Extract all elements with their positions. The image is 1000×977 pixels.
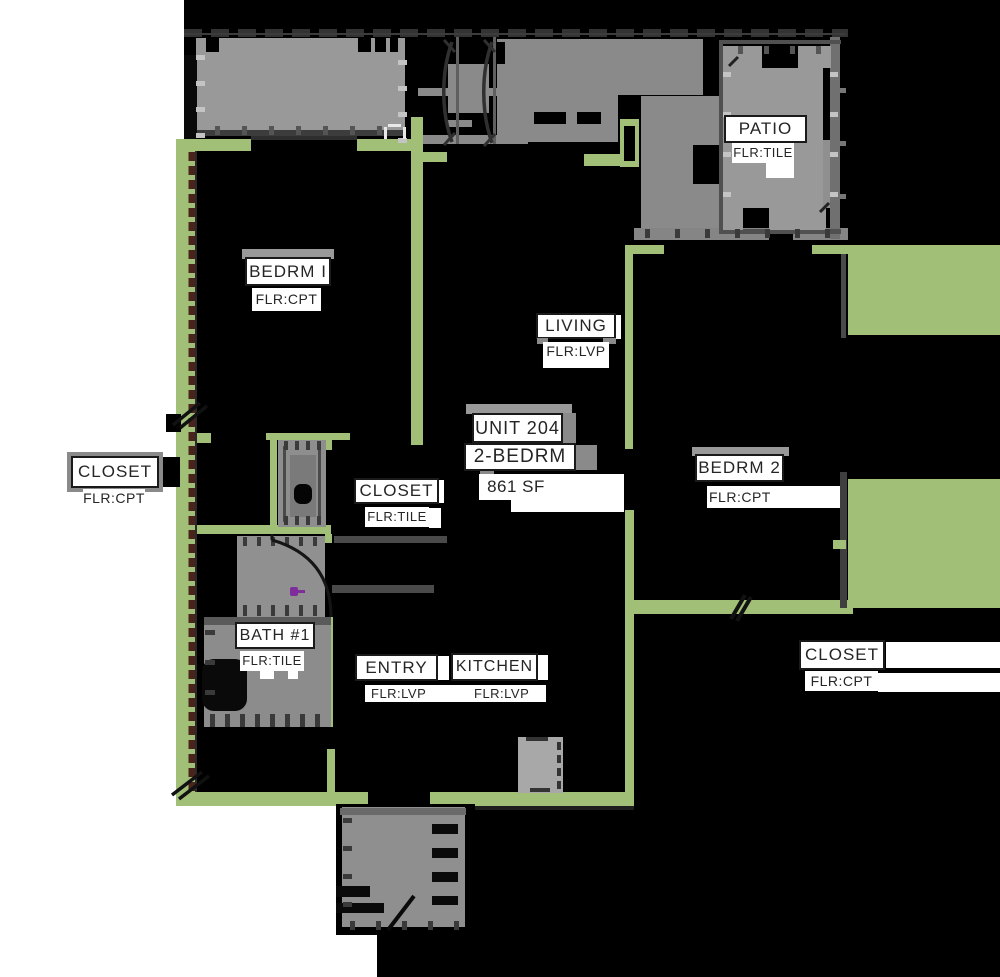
gray stubs right of patio edge	[840, 88, 846, 93]
patio right inner column black upper	[823, 68, 830, 140]
wall: laundry closet top (green)	[266, 433, 350, 440]
wall: unit right / corridor wall upper (green)	[625, 245, 633, 449]
half wall / counter line right of bath	[332, 585, 434, 593]
patio right inner hatch ticks	[830, 72, 838, 77]
floor label: left CLOSET FLR:CPT	[83, 489, 145, 508]
adjacent unit floor slab above BEDRM 1	[196, 38, 405, 135]
kitchen appliance (range) gray box	[518, 737, 563, 793]
white drawing background, bottom strip under stair	[0, 930, 377, 977]
stair enclosure black frame below unit	[336, 804, 475, 935]
patio outline top line	[719, 40, 841, 44]
label halo: small closet right sliver	[439, 480, 444, 503]
floor label: small CLOSET FLR:TILE	[365, 507, 429, 527]
white door swing marks on adjacent slab	[384, 127, 387, 139]
bath lower floor dark band	[204, 617, 331, 625]
wall stub: laundry closet right top	[325, 440, 332, 450]
black notch in corridor band 1	[534, 112, 566, 124]
unit area white patch and text: 861 SF	[479, 474, 624, 500]
label halo: BEDRM 1	[242, 249, 334, 259]
stair left hatch ticks	[343, 818, 352, 823]
wall: BEDRM 2 bottom (green)	[634, 600, 853, 614]
corridor entry door frame (green)	[620, 119, 639, 167]
room label box: CLOSET (bedroom 1 closet)	[71, 456, 159, 488]
wall: patio to BEDRM 2 corner (green)	[812, 245, 856, 254]
wall stub: BEDRM 2 top-left (green)	[625, 245, 664, 254]
room label box: BATH #1	[235, 622, 315, 649]
room label box: CLOSET (bedroom 2 closet)	[799, 640, 885, 670]
door swing slash marks on BEDRM 2 bottom wall	[731, 595, 751, 621]
floor labels band: ENTRY + KITCHEN FLR:LVP	[365, 685, 546, 702]
green notch on BEDRM 2 right wall	[833, 540, 846, 549]
adjacent slab left edge plus-marks	[196, 55, 205, 60]
white tabs below bath floor label	[260, 671, 274, 679]
wall: top of BEDRM 1 left segment	[176, 139, 251, 151]
gray middle landing in stairwell	[448, 64, 489, 113]
label halo: LIVING right sliver	[616, 315, 621, 339]
floor label: BEDRM 1 FLR:CPT	[252, 288, 321, 311]
bath door leaf line	[271, 534, 274, 540]
room label box: BEDRM 2	[695, 454, 784, 482]
wall: unit bottom right segment (green)	[430, 792, 634, 806]
green exterior area right of BEDRM 2 (lower)	[848, 479, 1000, 608]
thin corridor band toward BEDRM 1	[418, 135, 528, 144]
firewall red dashed line inside left wall	[189, 152, 196, 792]
white patch below patio label	[766, 163, 794, 178]
dark line along top edge of drawing	[184, 33, 845, 35]
floor label: BEDRM 2 FLR:CPT (wide band)	[707, 486, 840, 508]
black area under stair bottom-right	[377, 952, 1000, 977]
black gap left of entry door frame	[618, 95, 641, 119]
room label box: CLOSET (laundry/tile closet)	[354, 478, 439, 504]
small dark mark at patio top-left corner	[729, 57, 738, 66]
appliance dark top mark	[526, 737, 548, 741]
hatch ticks strip above BEDRM 2	[645, 229, 650, 238]
floor label: BATH #1 FLR:TILE	[240, 651, 304, 671]
black notch in corridor band 2	[577, 112, 601, 124]
patio gray floor bottom-right	[769, 208, 826, 230]
patio gray floor center	[723, 68, 826, 208]
wall: black segment above left wall	[184, 55, 197, 139]
black notch at corridor slab left edge	[496, 42, 505, 64]
stairwell wall line right	[493, 36, 496, 144]
room label box: BEDRM 1	[245, 257, 331, 286]
stair gray landing	[342, 807, 465, 927]
wall: BEDRM 2 right edge dark line	[840, 472, 847, 608]
wall stub: BEDRM 1 bottom at left wall	[197, 433, 211, 443]
appliance dark right edge dashes	[557, 742, 561, 750]
black door connector box on left wall at closet label	[158, 457, 180, 487]
wall: top of BEDRM 1 right segment	[357, 139, 423, 151]
patio gray floor bottom-left	[723, 208, 743, 230]
washer/dryer black center blob	[294, 484, 312, 504]
bath shower gray floor	[237, 536, 325, 617]
connector line from CLOSET label to wall	[148, 471, 160, 475]
washer/dryer hatch ticks bottom	[284, 516, 288, 525]
window lintel line over BEDRM 1 window	[251, 136, 357, 140]
hatch tick strip along top of drawing	[184, 29, 848, 37]
floor label: PATIO FLR:TILE	[732, 143, 794, 163]
room label box: KITCHEN	[451, 653, 538, 681]
black notches in top edge of adjacent slab	[206, 38, 219, 52]
white sheet margin, top-left	[0, 0, 184, 139]
stair direction diagonal line	[388, 896, 414, 930]
entry door black inner slot	[624, 126, 635, 161]
dark edge line under adjacent slab	[196, 130, 405, 136]
label halo: KITCHEN right sliver	[538, 655, 548, 680]
black column right of corridor slab	[703, 39, 720, 96]
patio gray floor upper-left	[723, 46, 762, 68]
stair black step slots	[432, 824, 458, 834]
unit label box: 2-BEDRM	[464, 443, 576, 471]
stair black notch left 1	[336, 886, 370, 897]
adjacent slab bottom inner ticks	[215, 126, 220, 135]
patio gray floor upper-right	[798, 46, 831, 68]
small dark mark at patio bottom-right corner	[820, 203, 829, 212]
dark line below unit bottom wall	[338, 806, 634, 810]
label halo: UNIT 204 gray shadows	[466, 404, 572, 414]
white band right of right CLOSET label	[886, 642, 1000, 668]
label halo: BEDRM 2	[692, 447, 789, 456]
room label box: ENTRY	[355, 654, 438, 681]
white sheet margin, left strip	[0, 139, 176, 806]
white patch right of FLR:TILE	[429, 508, 441, 528]
label halo: LIVING gray bits	[537, 338, 548, 344]
wall: unit bottom left segment (green)	[176, 792, 368, 806]
gray slab between corridor and patio	[641, 96, 720, 238]
label halo: ENTRY right sliver	[438, 656, 449, 680]
patio outline left line	[719, 40, 723, 234]
black gap in strip above BEDRM 2	[769, 228, 793, 240]
corridor floor slab top-middle (upper)	[497, 39, 703, 95]
black notch in slab left of patio	[693, 145, 720, 184]
floor label: right CLOSET FLR:CPT	[805, 671, 878, 691]
appliance dark bottom mark	[530, 788, 550, 792]
corridor floor mid band right of stairwell	[497, 95, 618, 142]
wall: hall bottom / bath top (green)	[197, 525, 331, 534]
washer/dryer hatch ticks top	[284, 441, 288, 450]
floor label: LIVING FLR:LVP	[543, 342, 609, 368]
wall: left exterior (green)	[176, 139, 197, 806]
wall stub right of BEDRM 1 top corner	[423, 152, 447, 162]
patio outline right band	[830, 32, 840, 239]
door swing slash marks on left wall (lower)	[172, 772, 209, 799]
stair bottom hatch ticks	[350, 921, 355, 930]
dark line from laundry closet toward living	[334, 536, 447, 543]
toilet black shape in bath	[202, 659, 247, 711]
dark inner edge line of left wall	[195, 151, 197, 792]
room label box: LIVING	[536, 313, 616, 339]
purple marker in bath doorway	[290, 587, 298, 596]
unit label box: UNIT 204	[472, 413, 563, 443]
wall: BEDRM 2 right edge dark line upper	[841, 254, 846, 338]
patio right inner column gray lower	[823, 140, 830, 208]
stairwell door swing arcs in corridor	[444, 42, 452, 142]
patio top inner hatch ticks	[738, 46, 743, 54]
room label box: PATIO	[724, 115, 807, 143]
bath lower gray floor	[204, 617, 331, 727]
green exterior area right of BEDRM 2 (upper)	[848, 245, 1000, 335]
stairwell wall line left	[456, 36, 459, 144]
white band right of right FLR:CPT	[878, 673, 1000, 692]
shower dark hatch ticks bottom	[243, 605, 247, 616]
bath door swing arc	[272, 540, 331, 617]
gray band across stairwell upper	[418, 88, 497, 96]
black box on left wall upper	[166, 414, 181, 432]
door swing slash marks on left wall (upper)	[173, 403, 207, 428]
stair dark top strip under wall	[340, 808, 466, 815]
laundry closet washer/dryer gray block	[278, 440, 326, 527]
wall stub left of entry door (green)	[584, 154, 620, 166]
white drawing background, bottom-left corner	[0, 806, 336, 977]
washer/dryer dark frame lines	[283, 446, 286, 522]
label halo: left CLOSET gray frame	[67, 452, 163, 492]
gray step block in stairwell	[448, 120, 472, 127]
wall: BEDRM 1 / LIVING (vertical green)	[411, 117, 423, 445]
gray corridor strip above BEDRM 2	[634, 228, 848, 240]
patio outline bottom line	[719, 229, 841, 234]
bath left hatch ticks	[205, 630, 215, 635]
wall: bath right lower segment (green)	[327, 749, 335, 794]
wall: unit right / corridor wall lower (green)	[625, 510, 634, 792]
shower dark hatch ticks top	[243, 537, 247, 546]
wall stub below hall wall right end	[325, 534, 332, 543]
wall: laundry closet left (green)	[270, 440, 277, 529]
adjacent slab right edge plus-marks	[398, 60, 407, 65]
bath bottom hatch ticks	[210, 714, 215, 727]
wall: bath right (green)	[325, 617, 333, 727]
patio left inner hatch ticks	[723, 72, 731, 77]
stair black notch left 2	[336, 903, 384, 913]
